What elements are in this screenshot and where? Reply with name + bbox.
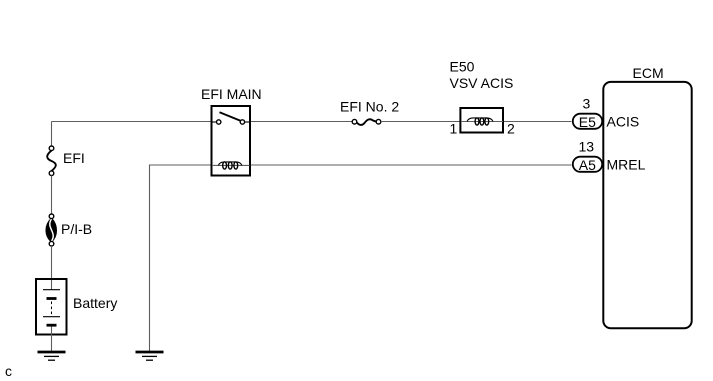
ground (battery)	[38, 352, 66, 360]
svg-text:MREL: MREL	[607, 157, 646, 173]
svg-text:EFI: EFI	[63, 150, 85, 166]
battery	[36, 279, 67, 335]
svg-text:P/I-B: P/I-B	[61, 221, 92, 237]
svg-text:A5: A5	[579, 157, 596, 173]
ECM box	[603, 82, 691, 328]
wire: top horizontal battery feed to EFI MAIN relay	[52, 121, 211, 123]
label ECM	[633, 65, 664, 81]
ground (relay coil)	[136, 352, 164, 360]
svg-text:ECM: ECM	[633, 65, 664, 81]
pin 13 (A5)	[579, 139, 595, 155]
svg-text:c: c	[5, 363, 12, 379]
label EFI No. 2	[340, 99, 399, 115]
svg-text:EFI MAIN: EFI MAIN	[201, 86, 262, 102]
svg-text:E5: E5	[579, 114, 596, 130]
wire: fusible link to battery	[51, 246, 53, 290]
VSV E50 box	[460, 108, 503, 133]
relay EFI MAIN box	[212, 106, 251, 176]
label Battery	[73, 295, 117, 311]
pin 2 (VSV)	[507, 121, 515, 137]
fuse EFI No. 2	[352, 119, 381, 125]
relay coil	[212, 162, 250, 169]
wire: left vertical from top corner to fuse EFI	[51, 122, 53, 147]
pin 3 (E5)	[583, 96, 591, 112]
wire: relay coil to ECM connector A5	[251, 164, 572, 166]
fusible link P/I-B	[46, 214, 56, 246]
svg-text:1: 1	[450, 121, 458, 137]
node MREL	[607, 157, 646, 173]
svg-text:2: 2	[507, 121, 515, 137]
wire: fuse EFI No. 2 to VSV	[381, 121, 460, 123]
svg-text:EFI No. 2: EFI No. 2	[340, 99, 399, 115]
label EFI MAIN	[201, 86, 262, 102]
svg-text:VSV ACIS: VSV ACIS	[450, 75, 514, 91]
wire: VSV to ECM connector E5	[504, 121, 572, 123]
wire: battery to ground	[51, 327, 53, 352]
label EFI	[63, 150, 85, 166]
svg-text:ACIS: ACIS	[607, 114, 640, 130]
svg-text:13: 13	[579, 139, 595, 155]
wire: relay coil left leg to ground	[150, 165, 211, 352]
label E50 / VSV ACIS	[450, 59, 514, 92]
VSV coil	[461, 118, 503, 125]
fuse EFI	[47, 146, 56, 176]
relay switch contact	[212, 112, 250, 124]
wire: relay switch to fuse EFI No. 2	[251, 121, 353, 123]
pin 1 (VSV)	[450, 121, 458, 137]
connector E5	[573, 114, 602, 130]
svg-text:3: 3	[583, 96, 591, 112]
label P/I-B	[61, 221, 92, 237]
node ACIS	[607, 114, 640, 130]
connector A5	[573, 157, 602, 173]
svg-text:E50: E50	[450, 59, 475, 75]
svg-text:Battery: Battery	[73, 295, 117, 311]
wire: between fuse EFI and fusible link P/I-B	[51, 176, 53, 215]
label c (figure marker)	[5, 363, 12, 379]
